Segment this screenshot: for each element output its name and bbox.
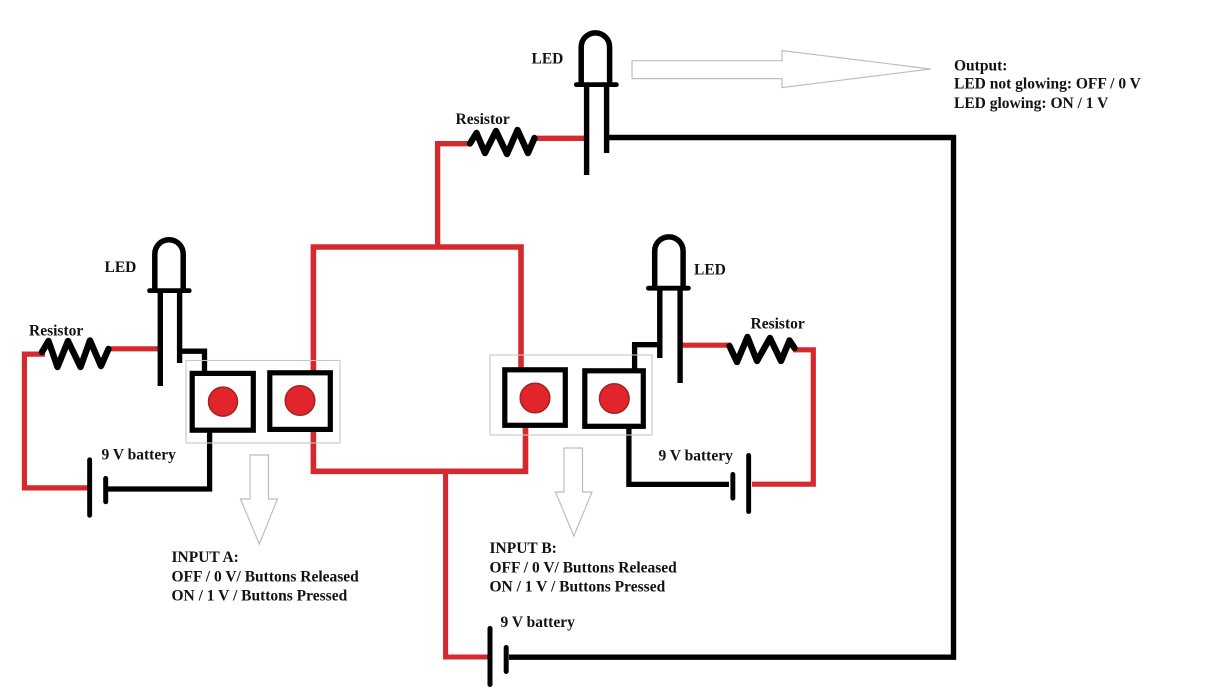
wire: black elbow from LED B left leg down into button4 top — [635, 345, 662, 369]
svg-text:Resistor: Resistor — [29, 323, 83, 340]
wire: black from battery A negative plate to button1 bottom — [106, 431, 210, 489]
LED left leg — [584, 87, 589, 175]
battery B long positive plate — [746, 453, 751, 514]
wire: red center bus bottom (button2 bottom, down, across, up to button3 bottom) — [313, 427, 525, 471]
svg-text:9 V battery: 9 V battery — [501, 614, 576, 631]
svg-text:9 V battery: 9 V battery — [659, 448, 734, 465]
arrow: input A callout (white down arrow) — [241, 455, 278, 544]
svg-text:9 V battery: 9 V battery — [102, 447, 177, 464]
battery B-B (right 9V) — [730, 453, 751, 514]
svg-text:OFF / 0 V/ Buttons Released: OFF / 0 V/ Buttons Released — [490, 560, 678, 577]
LED left leg — [657, 291, 662, 359]
LED right leg — [677, 291, 682, 384]
LED right leg — [177, 293, 182, 363]
battery B short negative plate — [730, 472, 735, 501]
svg-text:LED not glowing: OFF / 0 V: LED not glowing: OFF / 0 V — [954, 76, 1142, 93]
resistor R-A (left) — [42, 341, 109, 368]
LED D-B (right input LED) — [646, 237, 691, 383]
button S1 red cap — [209, 387, 238, 416]
LED collar — [147, 288, 191, 293]
pushbutton S1 — [192, 373, 253, 430]
LED collar — [574, 82, 619, 87]
arrow: input B callout (white down arrow) — [556, 448, 593, 536]
LED dome — [155, 240, 183, 289]
button S2 red cap — [285, 386, 315, 416]
LED U-out (top output LED) — [574, 33, 619, 175]
wire: red from top resistor right end to output LED left leg — [534, 136, 589, 141]
svg-text:Resistor: Resistor — [456, 111, 510, 128]
pushbutton S2 — [270, 373, 331, 430]
wire: black from button4 bottom to battery B negative plate — [629, 428, 729, 484]
wire: red from top resistor left end to center bus — [438, 144, 470, 249]
pushbutton group B outline — [490, 355, 652, 435]
bottom battery long positive plate — [488, 626, 493, 687]
bottom battery short negative plate — [504, 645, 509, 674]
svg-text:INPUT A:: INPUT A: — [172, 549, 239, 566]
pushbutton S4 — [585, 371, 644, 427]
wire: red stem from bus bottom down to bottom battery positive plate — [446, 469, 488, 657]
svg-text:LED glowing: ON / 1 V: LED glowing: ON / 1 V — [954, 95, 1109, 112]
wire: red from LED B right leg to resistor B left end — [678, 343, 731, 348]
resistor (top, output) — [470, 130, 535, 154]
button S3 red cap — [520, 383, 550, 413]
svg-text:OFF / 0 V/ Buttons Released: OFF / 0 V/ Buttons Released — [172, 569, 360, 586]
LED right leg — [604, 87, 609, 153]
svg-text:INPUT B:: INPUT B: — [490, 540, 557, 557]
svg-text:ON / 1 V / Buttons Pressed: ON / 1 V / Buttons Pressed — [172, 588, 348, 605]
svg-text:ON / 1 V / Buttons Pressed: ON / 1 V / Buttons Pressed — [490, 579, 666, 596]
wire: output net black (LED right leg to right border, down, along bottom to battery) — [509, 138, 954, 658]
LED D-A (left input LED) — [147, 240, 191, 386]
LED collar — [646, 286, 691, 291]
svg-text:Resistor: Resistor — [751, 316, 805, 333]
wire: black elbow from LED A right leg down into button1 top — [177, 351, 205, 372]
wire: red center bus top (button2 top, up, across, down to button3 top) — [313, 247, 521, 372]
pushbutton S3 — [505, 370, 566, 426]
LED dome — [655, 237, 683, 286]
LED left leg — [158, 293, 163, 386]
battery A short negative plate — [103, 476, 108, 504]
arrow: output callout (white right arrow) — [632, 51, 931, 88]
wire: red from resistor A right end to LED A left leg — [107, 346, 163, 351]
wire: red loop B (resistor B right end, down, across to battery B positive plate) — [752, 350, 813, 484]
svg-text:LED: LED — [532, 51, 564, 68]
battery B-A (left 9V) — [87, 457, 108, 517]
wire: red loop A (resistor A left end, down, across to battery A positive plate) — [24, 354, 88, 488]
LED dome — [581, 33, 609, 83]
battery B-out (bottom 9V) — [488, 626, 509, 687]
svg-text:LED: LED — [694, 262, 726, 279]
button S4 red cap — [600, 384, 630, 414]
resistor R-B (right) — [730, 337, 795, 362]
svg-text:LED: LED — [105, 259, 137, 276]
svg-text:Output:: Output: — [954, 57, 1007, 74]
pushbutton group A outline — [186, 361, 340, 444]
battery A long positive plate — [87, 457, 92, 517]
